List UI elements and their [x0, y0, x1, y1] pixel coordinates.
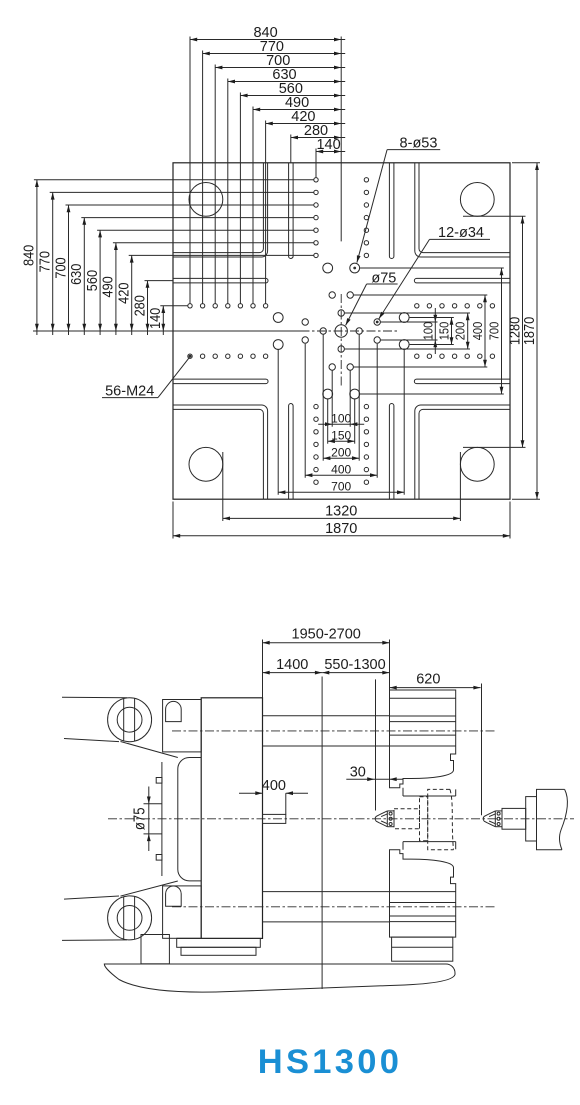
- ejector housing rear edge: [161, 762, 163, 876]
- dim 400 right: [484, 295, 486, 367]
- dim 140 top: [316, 151, 345, 153]
- moving platen foot: [177, 937, 202, 939]
- extension line 1280 bottom: [463, 446, 526, 448]
- svg-text:1870: 1870: [520, 317, 537, 346]
- extension lines bottom chain: [331, 371, 333, 427]
- dim 700 top: [215, 67, 345, 69]
- 56 x M24 holes: [364, 404, 368, 408]
- svg-text:1870: 1870: [325, 521, 357, 537]
- svg-text:400: 400: [470, 322, 485, 341]
- svg-text:HS1300: HS1300: [258, 1043, 402, 1081]
- dim 770 top: [203, 53, 346, 55]
- dim 1280 right: [522, 216, 524, 447]
- dim 840 left: [36, 180, 38, 335]
- dim ø75 (ejector hole): [144, 803, 162, 805]
- dim 770 left: [52, 192, 54, 335]
- extension line 1870 right: [509, 502, 511, 539]
- mould parting extension line: [321, 677, 323, 990]
- dim 1870 bottom: [173, 535, 510, 537]
- svg-text:420: 420: [114, 282, 131, 303]
- extension line daylight left: [262, 640, 264, 698]
- ejector housing rounded plate: [178, 758, 201, 881]
- svg-text:490: 490: [99, 276, 116, 297]
- tie bar upper (daylight): [263, 715, 390, 717]
- svg-text:280: 280: [130, 295, 147, 316]
- svg-text:700: 700: [331, 479, 351, 493]
- dim 490 left: [115, 243, 117, 335]
- dim 1870 right: [536, 163, 538, 499]
- platen plate outline: [173, 163, 510, 499]
- svg-text:560: 560: [83, 270, 100, 291]
- tie bar hole top-left: [189, 183, 223, 217]
- svg-text:630: 630: [67, 263, 84, 284]
- machine base hull: [104, 964, 455, 992]
- corner pad contour (LT): [173, 163, 263, 253]
- extension line nozzle tip: [375, 679, 377, 810]
- dim 150 right: [451, 318, 453, 345]
- tie bar housing block lower: [163, 886, 202, 938]
- toggle link arm lower: [62, 939, 127, 942]
- corner pad contour (LT): [173, 163, 268, 257]
- dim 400 bottom: [305, 474, 377, 476]
- svg-text:200: 200: [453, 322, 468, 341]
- svg-text:150: 150: [437, 322, 452, 341]
- T-slot bottom-left vertical: [289, 404, 294, 500]
- svg-text:140: 140: [316, 137, 340, 153]
- svg-text:400: 400: [262, 778, 286, 794]
- nozzle ring nut: [386, 811, 388, 827]
- svg-text:770: 770: [35, 251, 52, 272]
- lifting lug detail upper: [166, 701, 182, 721]
- dim 620: [390, 687, 481, 689]
- toggle link pin boss lower: [108, 896, 152, 940]
- dim 140 left: [162, 306, 164, 335]
- nozzle tip cone: [483, 815, 487, 823]
- vertical centerline: [340, 294, 342, 388]
- extension line daylight right: [389, 640, 391, 691]
- extension lines of left dims: [34, 179, 314, 181]
- extension line 1870 left: [172, 502, 174, 539]
- dim 420 left: [131, 255, 133, 335]
- extension line 1280 top: [463, 215, 526, 217]
- dim 400 (ejector stroke): [239, 792, 263, 794]
- corner pad contour (RT): [419, 163, 510, 253]
- dim 700 right: [501, 268, 503, 394]
- svg-text:200: 200: [331, 445, 351, 459]
- svg-text:150: 150: [331, 428, 351, 442]
- T-slot right-bottom horizontal: [414, 379, 510, 384]
- corner pad contour (RB): [415, 405, 510, 499]
- svg-text:100: 100: [331, 411, 351, 425]
- T-slot right-top horizontal: [414, 278, 510, 283]
- svg-text:1950-2700: 1950-2700: [292, 627, 361, 643]
- extension line 620 right: [481, 684, 483, 816]
- extension line 1870r bottom: [512, 498, 540, 500]
- dim 200 right: [467, 313, 469, 349]
- support diagonal lower: [121, 881, 178, 896]
- sprue boss solid walls around nozzle: [403, 788, 456, 796]
- extension lines right chain: [381, 321, 438, 323]
- dim 100 right: [434, 308, 436, 354]
- svg-text:ø75: ø75: [132, 807, 149, 830]
- svg-text:620: 620: [416, 672, 440, 688]
- nozzle ring nut: [494, 811, 496, 827]
- support diagonal upper: [121, 742, 178, 758]
- dim 30: [346, 778, 403, 780]
- T-slot top-left vertical: [289, 163, 294, 259]
- T-slot bottom-right vertical: [389, 404, 394, 500]
- dim 560 left: [99, 230, 101, 335]
- dim 700 left: [68, 205, 70, 335]
- moving platen: [201, 698, 262, 939]
- dim 560 top: [240, 95, 345, 97]
- dim 1320 bottom: [223, 517, 461, 519]
- dim 700 bottom: [278, 491, 404, 493]
- corner pad contour (RB): [419, 409, 510, 499]
- dim 280 top: [291, 137, 345, 139]
- svg-text:30: 30: [350, 765, 366, 781]
- dim 630 left: [83, 218, 85, 335]
- svg-text:12-ø34: 12-ø34: [438, 225, 484, 241]
- tie bar centerline lower: [172, 906, 497, 908]
- corner pad contour (LB): [173, 405, 268, 499]
- dim 420 top: [266, 123, 346, 125]
- tie bar lower (daylight): [263, 891, 390, 893]
- svg-text:100: 100: [420, 322, 435, 341]
- dim 280 left: [147, 281, 149, 335]
- T-slot top-right vertical: [389, 163, 394, 259]
- locating hole ø75 center: [335, 325, 347, 337]
- dim 150 bottom: [328, 440, 355, 442]
- center row extension line (left dims): [33, 330, 305, 332]
- T-slot left-top horizontal: [173, 278, 268, 283]
- svg-text:840: 840: [20, 245, 37, 266]
- fixed platen outline: [390, 690, 456, 788]
- corner pad contour (RT): [415, 163, 510, 257]
- toggle link arm upper: [62, 696, 127, 699]
- T-slot left-bottom horizontal: [173, 379, 268, 384]
- 8 x ø53 holes: [399, 340, 409, 350]
- svg-text:700: 700: [487, 322, 502, 341]
- rear support foot: [141, 935, 169, 964]
- svg-text:1400: 1400: [276, 657, 308, 673]
- dim 1400: [263, 672, 323, 674]
- toggle link pin boss upper: [108, 698, 152, 742]
- tie bar hole top-right: [460, 183, 494, 217]
- tie bar hole bottom-left: [189, 447, 223, 481]
- dim 100 bottom: [318, 423, 364, 425]
- nozzle tip cone: [375, 815, 379, 823]
- 12 x ø34 holes: [356, 328, 362, 334]
- tie bar centerline upper: [172, 730, 497, 732]
- fixed platen internal lines: [390, 697, 456, 699]
- svg-text:1320: 1320: [325, 504, 357, 520]
- svg-text:700: 700: [51, 257, 68, 278]
- dim 490 top: [253, 109, 345, 111]
- extension line 1320 left: [222, 452, 224, 521]
- extension line 1320 right: [459, 452, 461, 521]
- machine centerline: [108, 818, 574, 820]
- svg-text:140: 140: [146, 308, 163, 329]
- dim 1950-2700: [263, 642, 390, 644]
- svg-text:550-1300: 550-1300: [324, 657, 385, 673]
- dim 630 top: [228, 81, 345, 83]
- center reference extension line (top dims): [340, 37, 342, 242]
- dim 840 top: [190, 39, 345, 41]
- tie bar housing block upper: [163, 700, 202, 752]
- horizontal centerline: [284, 330, 398, 332]
- corner pad contour (LB): [173, 409, 263, 499]
- tie bar hole bottom-right: [460, 447, 494, 481]
- fixed platen foot: [392, 937, 453, 961]
- extension lines of top dims: [189, 37, 191, 304]
- dim 200 bottom: [323, 457, 359, 459]
- dim 550-1300: [322, 672, 389, 674]
- extension line 1870r top: [512, 162, 540, 164]
- lifting lug detail lower: [166, 886, 182, 906]
- ejector rod on platen face: [263, 814, 286, 823]
- svg-text:400: 400: [331, 462, 351, 476]
